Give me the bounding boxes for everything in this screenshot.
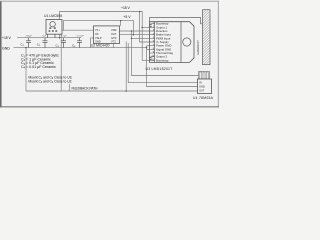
- IC U3 package: [150, 18, 203, 63]
- IC U3 pin numbers: [151, 23, 154, 62]
- svg-text:U3 LMD18201T: U3 LMD18201T: [146, 67, 173, 71]
- wire GND rail: [14, 47, 147, 49]
- mounting hole: [183, 38, 191, 46]
- svg-text:0.01µF: 0.01µF: [77, 35, 85, 37]
- pin list box divider: [180, 22, 182, 63]
- body with chamfer: [150, 22, 195, 63]
- wire U2 bottom gnd stub: [113, 44, 115, 48]
- wire fb vertical B to U4 IN: [128, 43, 197, 83]
- svg-text:FEEDBACK PATH: FEEDBACK PATH: [72, 87, 99, 91]
- svg-text:OF: OF: [95, 32, 99, 36]
- svg-text:C4 = 0.01 µF Ceramic: C4 = 0.01 µF Ceramic: [21, 65, 56, 70]
- svg-text:LMD18201T: LMD18201T: [196, 40, 200, 55]
- capacitor C4: [77, 38, 82, 48]
- wire U2 out1 to pin3: [120, 30, 155, 32]
- capacitor C8 bootstrap bottom: [150, 57, 152, 58]
- svg-text:GTR: GTR: [111, 36, 117, 40]
- svg-text:OUT: OUT: [199, 89, 205, 93]
- wire PWM to pin5: [132, 37, 155, 39]
- svg-text:IN: IN: [199, 81, 202, 85]
- svg-text:+15 V: +15 V: [2, 36, 12, 40]
- wire U3 pin1 stub: [151, 23, 155, 25]
- wire +15V rail left: [17, 37, 81, 39]
- wire fb vertical A: [125, 42, 127, 92]
- svg-text:0.1µF: 0.1µF: [61, 35, 67, 37]
- junction dots: [25, 11, 147, 92]
- svg-text:VSLP: VSLP: [95, 36, 102, 40]
- svg-text:VDD: VDD: [111, 28, 117, 32]
- svg-text:VT2: VT2: [111, 40, 116, 44]
- wire U3 pin10 stub: [151, 56, 155, 58]
- svg-text:OUT: OUT: [111, 32, 117, 36]
- wire U3 pin9 stub: [150, 52, 155, 54]
- svg-text:U4 78M05A: U4 78M05A: [193, 96, 214, 100]
- notes text block: [21, 54, 59, 70]
- svg-text:470µF: 470µF: [26, 35, 33, 37]
- svg-text:GND: GND: [199, 85, 205, 89]
- wire +5V stub to U2 VDD: [120, 21, 122, 26]
- IC U1 oscillator: [46, 20, 62, 38]
- wire U1 drop to feedback line: [60, 34, 62, 91]
- capacitor C1: [26, 38, 31, 48]
- IC U2 driver: [94, 26, 120, 44]
- wire U1 out to U2 in: [62, 29, 94, 31]
- svg-text:U1 LMC555: U1 LMC555: [44, 14, 62, 18]
- wire gnd to pin7 pin8: [147, 45, 155, 47]
- wire feedback tick: [69, 84, 71, 91]
- wire U3 pin11 stub: [151, 59, 155, 61]
- tab outline: [150, 18, 203, 24]
- wire +5V line: [64, 21, 134, 35]
- wire +15V riser to pin6: [140, 12, 155, 43]
- wire +15V top line: [60, 12, 151, 61]
- wire U2 out2 to pin4: [120, 34, 155, 36]
- svg-text:+15 V: +15 V: [121, 6, 131, 10]
- IC U4 regulator: [198, 72, 212, 94]
- wire feedback left vertical: [25, 48, 27, 91]
- capacitor C7 plates: [149, 25, 152, 59]
- svg-text:Bootstrap: Bootstrap: [156, 58, 169, 62]
- capacitor C2: [43, 38, 48, 48]
- svg-text:U2 MIC4420: U2 MIC4420: [91, 43, 110, 47]
- svg-text:Mount C3 and C4 Close to U2.: Mount C3 and C4 Close to U2.: [28, 80, 72, 85]
- heatsink: [203, 10, 211, 65]
- wire U2 left gnd stub: [91, 38, 94, 48]
- svg-text:GND: GND: [2, 46, 10, 50]
- border frame: [0, 1, 2, 108]
- svg-text:VT+: VT+: [95, 28, 100, 32]
- wire pin2 tap: [142, 26, 154, 28]
- svg-text:+5 V: +5 V: [123, 15, 131, 19]
- capacitor C7 bootstrap top: [150, 24, 152, 25]
- capacitor C3: [61, 38, 66, 48]
- IC U3 pin names: [156, 22, 173, 63]
- svg-text:1µF: 1µF: [42, 35, 46, 37]
- wire feedback long line: [26, 90, 198, 92]
- wire riser to U4 tab: [132, 31, 199, 76]
